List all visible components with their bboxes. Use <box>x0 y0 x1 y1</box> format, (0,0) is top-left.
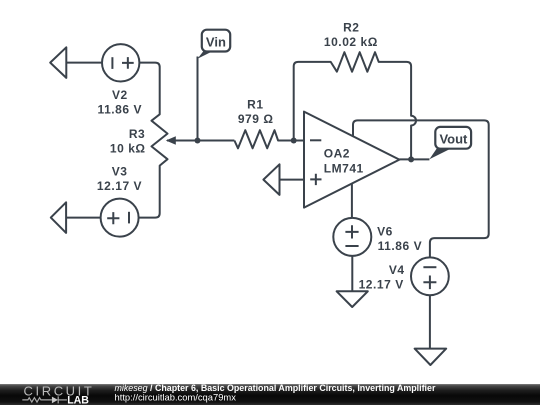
svg-text:LM741: LM741 <box>324 161 364 175</box>
svg-text:V3: V3 <box>112 165 128 179</box>
svg-text:12.17 V: 12.17 V <box>359 277 404 291</box>
svg-text:R2: R2 <box>343 20 359 34</box>
svg-text:Vout: Vout <box>439 132 468 147</box>
svg-text:11.86 V: 11.86 V <box>98 103 143 117</box>
svg-text:OA2: OA2 <box>324 147 350 161</box>
svg-text:R3: R3 <box>129 127 145 141</box>
svg-text:R1: R1 <box>247 97 263 111</box>
svg-text:11.86 V: 11.86 V <box>378 239 423 253</box>
svg-text:V2: V2 <box>112 88 128 102</box>
svg-text:Vin: Vin <box>206 34 226 49</box>
svg-text:V4: V4 <box>389 263 405 277</box>
svg-text:10 kΩ: 10 kΩ <box>110 142 146 156</box>
svg-text:http://circuitlab.com/cqa79mx: http://circuitlab.com/cqa79mx <box>115 392 237 403</box>
svg-text:979 Ω: 979 Ω <box>238 112 274 126</box>
svg-text:LAB: LAB <box>67 395 89 405</box>
svg-text:10.02 kΩ: 10.02 kΩ <box>324 35 378 49</box>
svg-text:12.17 V: 12.17 V <box>97 179 142 193</box>
svg-text:V6: V6 <box>377 225 393 239</box>
